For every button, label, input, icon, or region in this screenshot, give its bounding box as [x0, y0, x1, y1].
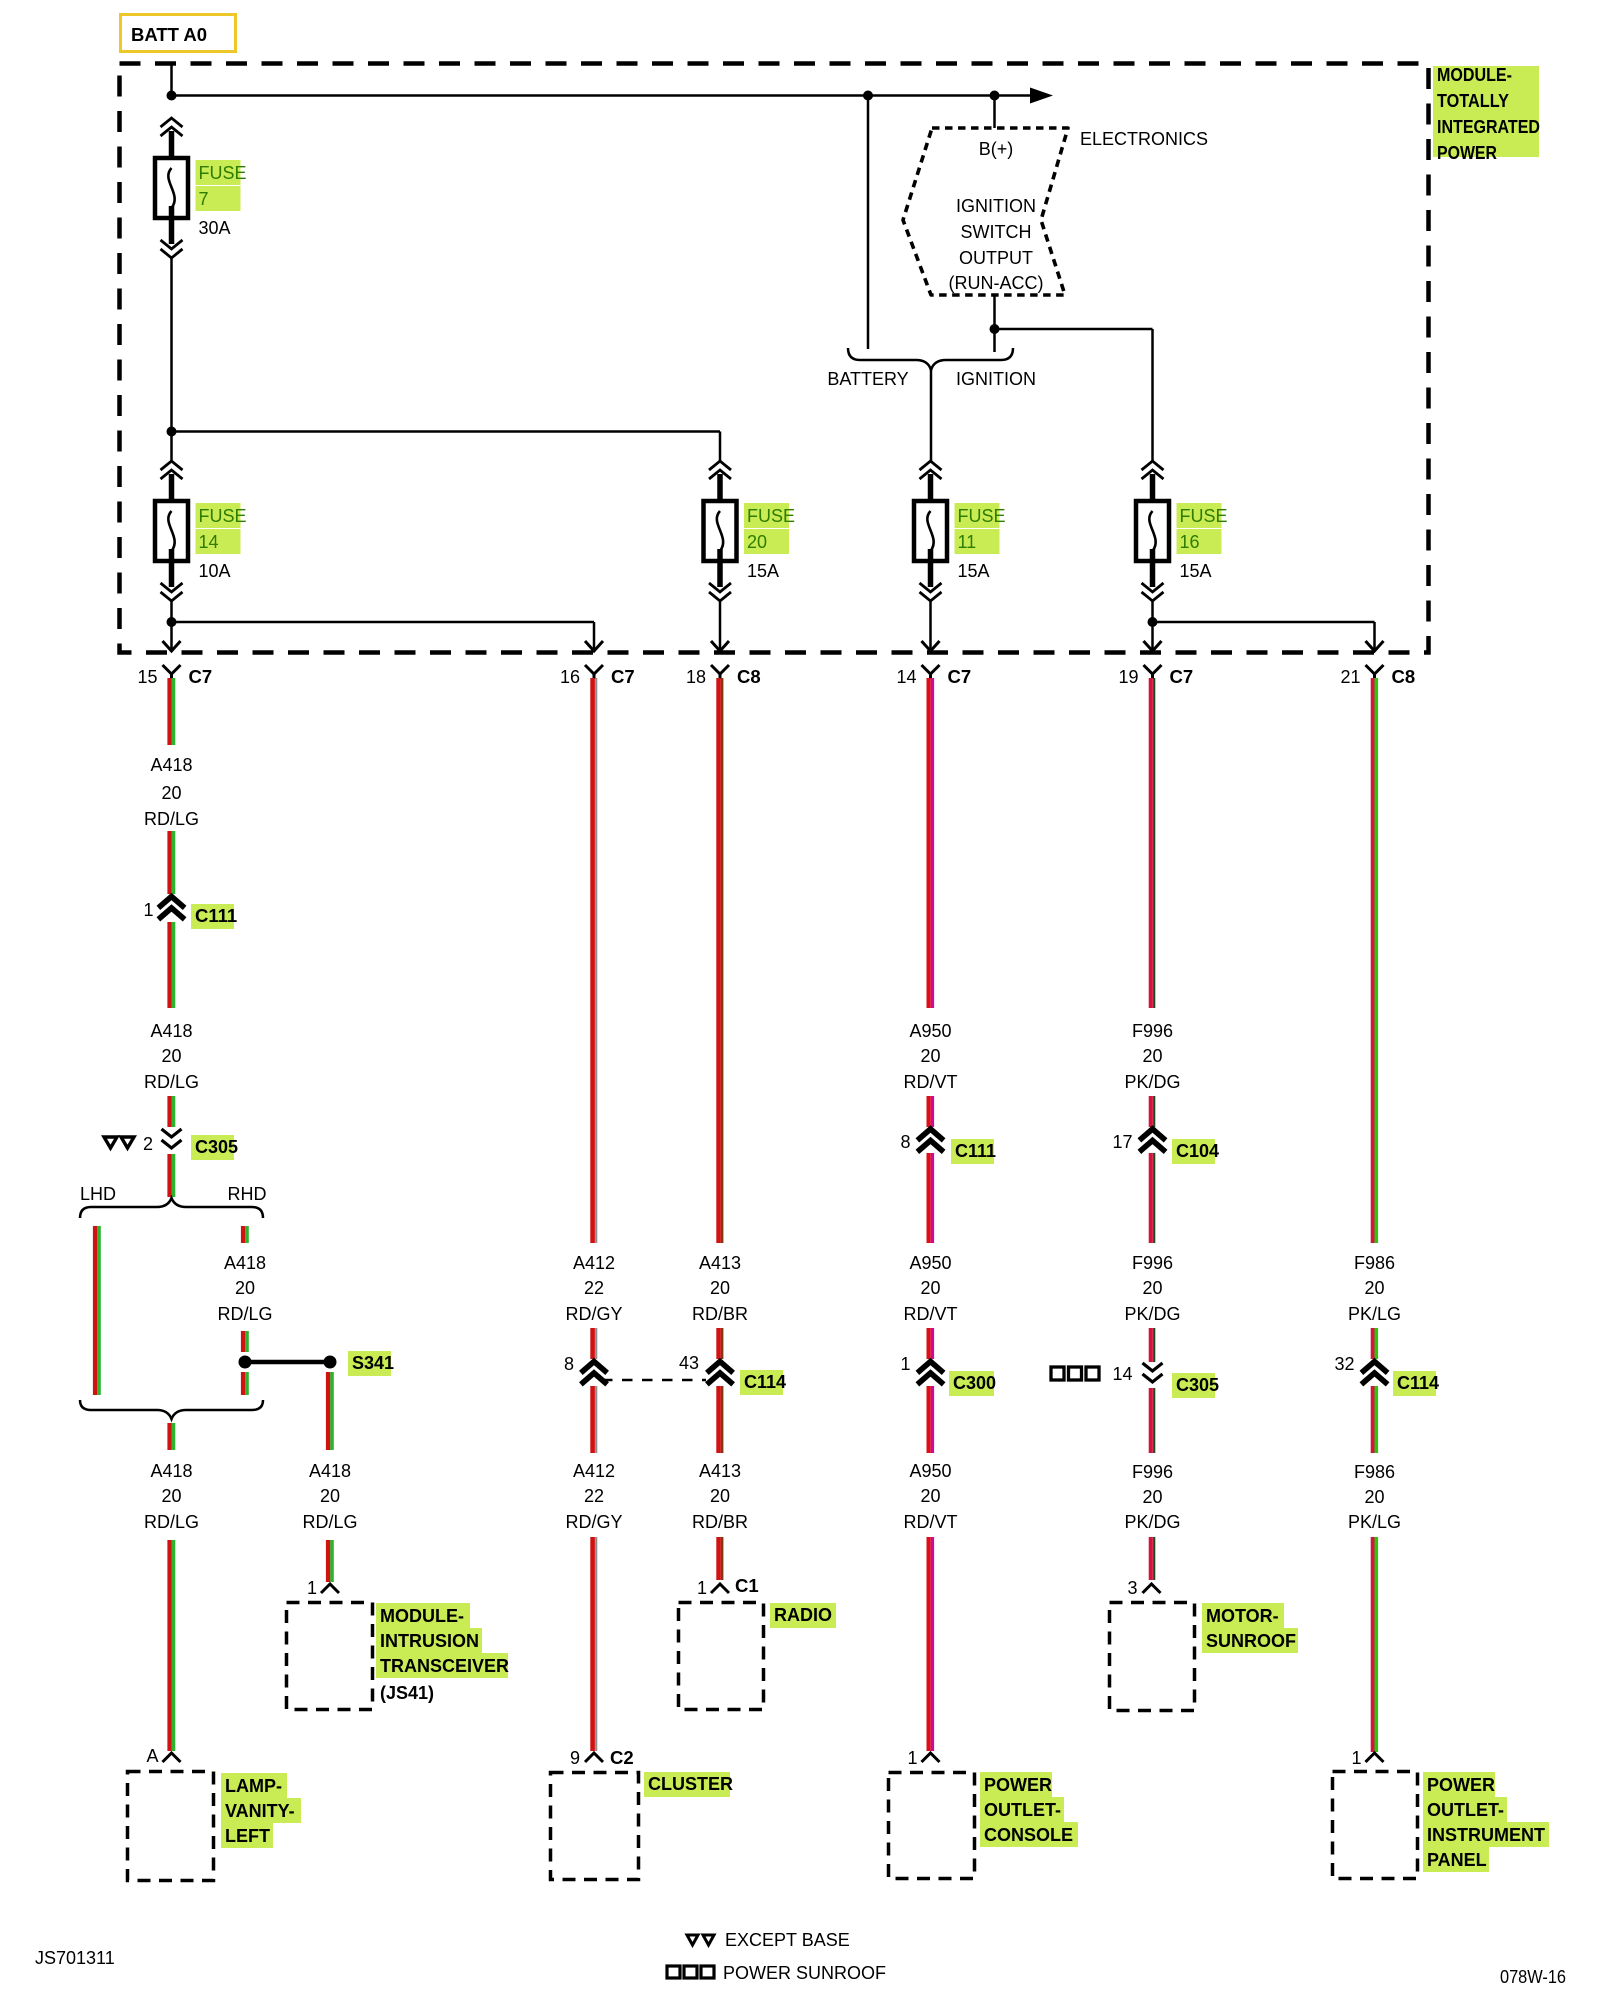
svg-text:19: 19 [1118, 667, 1138, 687]
connector C7 pin 14 [922, 665, 940, 679]
label connector C114 [740, 1370, 786, 1395]
wire A418 20 RD/LG [170, 1540, 174, 1751]
label MODULE-TOTALLY INTEGRATED POWER [1433, 65, 1540, 163]
wire A418 20 RD/LG [170, 1423, 174, 1450]
svg-text:A412: A412 [573, 1461, 615, 1481]
svg-text:1: 1 [907, 1748, 917, 1768]
svg-text:C7: C7 [1170, 666, 1194, 687]
wire A418 20 RD/LG [170, 1154, 174, 1197]
wire A418 RHD branch [243, 1372, 247, 1395]
svg-text:20: 20 [1364, 1487, 1384, 1507]
svg-text:PK/LG: PK/LG [1348, 1304, 1401, 1324]
svg-text:PK/DG: PK/DG [1124, 1304, 1180, 1324]
legend power-sunroof squares [667, 1966, 714, 1978]
wire F996 20 PK/DG [1151, 1096, 1154, 1127]
value label F986 20 PK/LG [1348, 1462, 1401, 1532]
connector C7 pin 19 [1144, 665, 1162, 679]
svg-text:JS701311: JS701311 [35, 1948, 115, 1968]
component CLUSTER dashed box [551, 1773, 639, 1880]
junction at fuse 7 feed [167, 91, 177, 101]
node LHD/RHD split brace [80, 1198, 263, 1218]
wire ignition to brace [993, 329, 996, 352]
svg-text:22: 22 [584, 1278, 604, 1298]
svg-text:BATT A0: BATT A0 [131, 24, 207, 45]
wire A418 20 RD/LG [170, 1096, 174, 1127]
wire A413 20 RD/BR [719, 1537, 723, 1580]
wire down to fuse 20 [719, 432, 722, 462]
wire A950 20 RD/VT [929, 1153, 933, 1243]
svg-text:RD/LG: RD/LG [302, 1512, 357, 1532]
node LHD/RHD merge brace [80, 1400, 263, 1419]
svg-text:C300: C300 [953, 1373, 996, 1393]
label MOTOR-SUNROOF [1202, 1603, 1298, 1653]
wire A950 20 RD/VT [929, 678, 933, 1008]
svg-text:A413: A413 [699, 1253, 741, 1273]
svg-text:20: 20 [920, 1486, 940, 1506]
connector C8 pin 18 [711, 665, 729, 679]
svg-text:20: 20 [161, 1486, 181, 1506]
svg-text:C305: C305 [1176, 1375, 1219, 1395]
svg-text:A412: A412 [573, 1253, 615, 1273]
wire B+ to ignition switch [993, 96, 996, 129]
svg-text:20: 20 [1142, 1046, 1162, 1066]
svg-text:EXCEPT BASE: EXCEPT BASE [725, 1930, 850, 1950]
svg-text:BATTERY: BATTERY [827, 369, 908, 389]
node BATTERY/IGNITION brace [848, 348, 1013, 370]
ignition switch output (RUN-ACC) dashed cloud [903, 128, 1068, 295]
svg-text:RD/VT: RD/VT [904, 1304, 958, 1324]
connector C7 pin 16 [585, 665, 603, 679]
connector C305 pin 2 (in-line) [162, 1129, 182, 1148]
svg-text:20: 20 [920, 1046, 940, 1066]
wire A418 RHD branch [243, 1226, 247, 1243]
svg-text:C7: C7 [611, 666, 635, 687]
svg-text:PK/LG: PK/LG [1348, 1512, 1401, 1532]
svg-text:MOTOR-: MOTOR- [1206, 1606, 1279, 1626]
svg-text:F996: F996 [1132, 1462, 1173, 1482]
connector C305 pin 14 (in-line) [1143, 1363, 1163, 1382]
svg-text:1: 1 [697, 1578, 707, 1598]
wire A412 22 RD/GY [593, 1328, 597, 1359]
svg-text:14: 14 [1112, 1364, 1132, 1384]
svg-text:RD/LG: RD/LG [217, 1304, 272, 1324]
svg-text:20: 20 [920, 1278, 940, 1298]
connector pin 1 of intrusion transceiver [321, 1584, 339, 1593]
svg-text:F996: F996 [1132, 1021, 1173, 1041]
svg-text:C8: C8 [1392, 666, 1416, 687]
wire down to border pin 19 [1151, 622, 1154, 650]
svg-text:1: 1 [900, 1354, 910, 1374]
svg-text:(RUN-ACC): (RUN-ACC) [949, 273, 1044, 293]
connector pin 1 of instrument panel power outlet [1366, 1753, 1384, 1762]
label CLUSTER [644, 1772, 733, 1797]
svg-text:INSTRUMENT: INSTRUMENT [1427, 1825, 1545, 1845]
fuse F20 15A [704, 461, 796, 601]
wire A418 to intrusion transceiver [328, 1540, 332, 1582]
svg-text:20: 20 [320, 1486, 340, 1506]
svg-text:32: 32 [1334, 1354, 1354, 1374]
wire fuse 20 output to border pin 18 [719, 601, 722, 650]
svg-text:OUTPUT: OUTPUT [959, 248, 1033, 268]
svg-text:RD/LG: RD/LG [144, 1072, 199, 1092]
fuse F11 15A [914, 461, 1006, 601]
svg-text:20: 20 [1364, 1278, 1384, 1298]
svg-text:FUSE: FUSE [199, 506, 247, 526]
label LAMP-VANITY-LEFT [221, 1773, 301, 1848]
wire F986 20 PK/LG [1373, 1537, 1377, 1752]
svg-text:(JS41): (JS41) [380, 1683, 434, 1703]
wire F986 20 PK/LG [1373, 1328, 1377, 1359]
label connector C114 [1393, 1371, 1439, 1396]
svg-text:OUTLET-: OUTLET- [984, 1800, 1061, 1820]
svg-text:SUNROOF: SUNROOF [1206, 1631, 1296, 1651]
svg-text:21: 21 [1340, 667, 1360, 687]
svg-text:FUSE: FUSE [747, 506, 795, 526]
value label A418 20 RD/LG [144, 755, 199, 829]
svg-text:A418: A418 [150, 1021, 192, 1041]
svg-text:RD/VT: RD/VT [904, 1512, 958, 1532]
svg-text:20: 20 [710, 1278, 730, 1298]
wire F996 20 PK/DG [1151, 1153, 1154, 1243]
svg-text:17: 17 [1112, 1132, 1132, 1152]
wire F996 20 PK/DG [1151, 1328, 1154, 1362]
component MODULE-INTRUSION TRANSCEIVER dashed box [287, 1603, 373, 1710]
svg-text:20: 20 [1142, 1487, 1162, 1507]
svg-text:ELECTRONICS: ELECTRONICS [1080, 129, 1208, 149]
svg-text:A413: A413 [699, 1461, 741, 1481]
svg-text:B(+): B(+) [979, 139, 1014, 159]
wire A413 20 RD/BR [719, 1386, 723, 1453]
svg-text:OUTLET-: OUTLET- [1427, 1800, 1504, 1820]
value label A412 22 RD/GY [565, 1253, 622, 1324]
value label A413 20 RD/BR [692, 1461, 748, 1532]
arrow at border pin 18 [711, 641, 729, 651]
svg-text:POWER SUNROOF: POWER SUNROOF [723, 1963, 886, 1983]
svg-text:7: 7 [199, 189, 209, 209]
svg-text:RD/BR: RD/BR [692, 1304, 748, 1324]
svg-text:15A: 15A [958, 561, 990, 581]
svg-text:C114: C114 [1397, 1373, 1439, 1393]
wire from BATT A0 into TIPM [170, 64, 173, 96]
wire A950 20 RD/VT [929, 1328, 933, 1359]
svg-text:16: 16 [560, 667, 580, 687]
label connector C300 [949, 1371, 996, 1396]
connector pin 3 of sunroof motor [1143, 1584, 1161, 1593]
svg-text:10A: 10A [199, 561, 231, 581]
svg-text:PANEL: PANEL [1427, 1850, 1487, 1870]
svg-text:C111: C111 [195, 905, 237, 926]
svg-text:22: 22 [584, 1486, 604, 1506]
svg-text:C1: C1 [735, 1575, 759, 1596]
svg-text:A418: A418 [224, 1253, 266, 1273]
wire down to border pin 21 [1373, 622, 1376, 650]
connector C114 pin 43 (in-line) [709, 1362, 731, 1383]
wire F996 20 PK/DG [1151, 678, 1154, 1008]
svg-text:RD/BR: RD/BR [692, 1512, 748, 1532]
svg-text:14: 14 [896, 667, 916, 687]
svg-text:16: 16 [1180, 532, 1200, 552]
wire A412 22 RD/GY [593, 1537, 597, 1751]
svg-text:FUSE: FUSE [199, 163, 247, 183]
wire A418 RHD branch [243, 1331, 247, 1352]
wire B+ bus [172, 94, 1047, 97]
wire battery sense down [867, 96, 870, 350]
svg-text:1: 1 [1351, 1748, 1361, 1768]
svg-text:8: 8 [564, 1354, 574, 1374]
svg-text:14: 14 [199, 532, 219, 552]
wire A418 20 RD/LG [170, 831, 174, 894]
connector C111 pin 1 (in-line) [161, 897, 183, 918]
wire fuse 14 output [170, 601, 173, 622]
legend except-base triangles [687, 1935, 714, 1945]
svg-text:RD/GY: RD/GY [565, 1304, 622, 1324]
svg-text:20: 20 [747, 532, 767, 552]
svg-text:1: 1 [143, 900, 153, 920]
wire F996 20 PK/DG [1151, 1537, 1154, 1580]
component RADIO dashed box [679, 1603, 764, 1710]
wire A418 20 RD/LG [170, 922, 174, 1008]
value label A418 20 RD/LG [144, 1021, 199, 1092]
label MODULE-INTRUSION TRANSCEIVER (JS41) [376, 1603, 509, 1703]
wire ignition feed to fuse 16 [995, 328, 1153, 331]
value label F996 20 PK/DG [1124, 1253, 1180, 1324]
svg-text:8: 8 [900, 1132, 910, 1152]
junction fuse 14 output split [167, 617, 177, 627]
svg-text:C111: C111 [955, 1141, 996, 1161]
wire down to fuse 14 [170, 432, 173, 462]
connector pin 1 of console power outlet [922, 1753, 940, 1762]
svg-text:18: 18 [686, 667, 706, 687]
arrow at border pin 14 [922, 641, 940, 651]
connector C111 pin 8 (in-line) [920, 1129, 942, 1150]
wire A413 20 RD/BR [719, 1328, 723, 1359]
svg-text:PK/DG: PK/DG [1124, 1512, 1180, 1532]
svg-text:LHD: LHD [80, 1184, 116, 1204]
value label A418 20 RD/LG (RHD) [217, 1253, 272, 1324]
svg-text:C2: C2 [610, 1747, 634, 1768]
svg-text:20: 20 [161, 783, 181, 803]
junction fuse14/fuse20 feed [167, 427, 177, 437]
wire feed to pin 21 [1153, 621, 1375, 624]
svg-text:IGNITION: IGNITION [956, 196, 1036, 216]
component LAMP-VANITY-LEFT dashed box [128, 1772, 214, 1881]
svg-text:F996: F996 [1132, 1253, 1173, 1273]
component POWER OUTLET-CONSOLE dashed box [889, 1773, 975, 1879]
component MOTOR-SUNROOF dashed box [1110, 1603, 1195, 1711]
value label A418 20 RD/LG [144, 1461, 199, 1532]
value label A412 22 RD/GY [565, 1461, 622, 1532]
wire ignition switch output down [993, 295, 996, 329]
svg-text:C7: C7 [189, 666, 213, 687]
svg-text:POWER: POWER [984, 1775, 1052, 1795]
wire A418 20 RD/LG [170, 678, 174, 745]
svg-text:RD/LG: RD/LG [144, 1512, 199, 1532]
svg-text:C8: C8 [737, 666, 761, 687]
svg-text:LAMP-: LAMP- [225, 1776, 282, 1796]
junction ignition-switch feed tap [990, 91, 1000, 101]
svg-text:IGNITION: IGNITION [956, 369, 1036, 389]
value label A950 20 RD/VT [904, 1021, 958, 1092]
wire A950 20 RD/VT [929, 1386, 933, 1453]
fuse F16 15A [1136, 461, 1228, 601]
svg-text:FUSE: FUSE [958, 506, 1006, 526]
junction ignition output split [990, 324, 1000, 334]
svg-text:LEFT: LEFT [225, 1826, 270, 1846]
svg-text:INTRUSION: INTRUSION [380, 1631, 479, 1651]
svg-text:INTEGRATED: INTEGRATED [1437, 117, 1540, 137]
value label A418 20 RD/LG [302, 1461, 357, 1532]
connector C8 pin 21 [1366, 665, 1384, 679]
svg-text:SWITCH: SWITCH [961, 222, 1032, 242]
label POWER OUTLET-CONSOLE [980, 1772, 1078, 1847]
svg-text:A418: A418 [309, 1461, 351, 1481]
wire feed to fuse 20 [172, 430, 721, 433]
wire F986 20 PK/LG [1373, 1386, 1377, 1453]
svg-text:RHD: RHD [228, 1184, 267, 1204]
svg-text:15A: 15A [1180, 561, 1212, 581]
wire feed to pin 16 [172, 621, 595, 624]
svg-text:A418: A418 [150, 1461, 192, 1481]
label POWER OUTLET-INSTRUMENT PANEL [1423, 1772, 1549, 1872]
svg-text:C104: C104 [1176, 1141, 1219, 1161]
svg-text:20: 20 [161, 1046, 181, 1066]
svg-text:30A: 30A [199, 218, 231, 238]
wire fuse 7 output down [170, 256, 173, 432]
component POWER OUTLET-INSTRUMENT PANEL dashed box [1333, 1772, 1418, 1879]
wire down to border pin 15 [170, 622, 173, 650]
svg-text:RD/LG: RD/LG [144, 809, 199, 829]
arrow at border pin 19 [1144, 641, 1162, 651]
svg-text:TRANSCEIVER: TRANSCEIVER [380, 1656, 509, 1676]
wire A418 to intrusion transceiver [328, 1372, 332, 1450]
arrow at border pin 15 [163, 641, 181, 651]
label connector C111 [191, 904, 237, 929]
symbol except-base triangles [104, 1137, 134, 1148]
svg-text:F986: F986 [1354, 1462, 1395, 1482]
splice S341 [324, 1356, 337, 1369]
label connector C305 [1172, 1373, 1219, 1398]
svg-text:F986: F986 [1354, 1253, 1395, 1273]
wire dashed tie between C114 halves [602, 1379, 706, 1382]
svg-text:C7: C7 [948, 666, 972, 687]
wire A413 20 RD/BR [719, 678, 723, 1243]
wire F996 20 PK/DG [1151, 1388, 1154, 1453]
wire A950 20 RD/VT [929, 1096, 933, 1127]
value label F986 20 PK/LG [1348, 1253, 1401, 1324]
svg-text:1: 1 [307, 1578, 317, 1598]
svg-text:A418: A418 [150, 755, 192, 775]
wire down to fuse 16 [1151, 329, 1154, 461]
connector C104 pin 17 (in-line) [1142, 1129, 1164, 1150]
svg-text:43: 43 [679, 1353, 699, 1373]
wire F986 20 PK/LG [1373, 678, 1377, 1243]
svg-text:3: 3 [1127, 1578, 1137, 1598]
symbol power-sunroof squares [1051, 1367, 1099, 1380]
wire fuse 11 output to border pin 14 [929, 601, 932, 650]
connector C300 pin 1 (in-line) [920, 1362, 942, 1383]
connector C114 pin 8 (in-line) [583, 1362, 605, 1383]
junction at splice S341 [239, 1356, 252, 1369]
arrow at border pin 16 [585, 641, 603, 651]
svg-text:A950: A950 [909, 1253, 951, 1273]
svg-text:9: 9 [570, 1748, 580, 1768]
wire down to border pin 16 [593, 622, 596, 650]
svg-text:POWER: POWER [1437, 143, 1497, 163]
wire A412 22 RD/GY [593, 678, 597, 1243]
label connector C104 [1172, 1139, 1219, 1164]
value label A413 20 RD/BR [692, 1253, 748, 1324]
svg-text:C114: C114 [744, 1372, 786, 1392]
svg-text:20: 20 [1142, 1278, 1162, 1298]
fuse F7 30A [155, 118, 247, 258]
label RADIO [770, 1603, 836, 1628]
svg-text:MODULE-: MODULE- [380, 1606, 464, 1626]
value label A950 20 RD/VT [904, 1253, 958, 1324]
value label F996 20 PK/DG [1124, 1021, 1180, 1092]
arrow at border pin 21 [1366, 641, 1384, 651]
wire A418 LHD branch [95, 1226, 99, 1395]
arrow B+ bus continuation [1030, 88, 1053, 104]
svg-text:20: 20 [235, 1278, 255, 1298]
junction fuse 16 output split [1148, 617, 1158, 627]
svg-text:11: 11 [958, 532, 977, 552]
connector C114 pin 32 (in-line) [1364, 1362, 1386, 1383]
svg-text:2: 2 [143, 1134, 153, 1154]
value label A950 20 RD/VT [904, 1461, 958, 1532]
svg-text:15: 15 [137, 667, 157, 687]
module Totally Integrated Power (TIPM) dashed boundary [120, 64, 1429, 653]
svg-text:RD/VT: RD/VT [904, 1072, 958, 1092]
svg-text:A950: A950 [909, 1021, 951, 1041]
svg-text:S341: S341 [352, 1353, 394, 1373]
connector pin A of vanity lamp [163, 1753, 181, 1762]
svg-text:15A: 15A [747, 561, 779, 581]
junction battery-sense tap [863, 91, 873, 101]
svg-text:VANITY-: VANITY- [225, 1801, 295, 1821]
connector C7 pin 15 [163, 665, 181, 679]
svg-text:CONSOLE: CONSOLE [984, 1825, 1073, 1845]
svg-text:FUSE: FUSE [1180, 506, 1228, 526]
svg-text:RD/GY: RD/GY [565, 1512, 622, 1532]
svg-text:MODULE-: MODULE- [1437, 65, 1512, 85]
value label F996 20 PK/DG [1124, 1462, 1180, 1532]
node BATT A0 feed box [121, 15, 236, 52]
wire A412 22 RD/GY [593, 1386, 597, 1453]
connector pin 9 of cluster [585, 1753, 603, 1762]
fuse F14 10A [155, 461, 247, 601]
wire splice link [245, 1360, 330, 1365]
label connector C111 [951, 1139, 996, 1164]
wire fuse 16 output [1151, 601, 1154, 622]
label connector C305 [191, 1135, 238, 1160]
svg-text:TOTALLY: TOTALLY [1437, 91, 1509, 111]
label splice S341 [348, 1351, 394, 1376]
svg-text:PK/DG: PK/DG [1124, 1072, 1180, 1092]
svg-text:078W-16: 078W-16 [1500, 1967, 1566, 1987]
wire A950 20 RD/VT [929, 1537, 933, 1751]
wire brace to fuse 11 [930, 369, 933, 461]
connector pin 1 of radio [711, 1584, 729, 1593]
svg-text:POWER: POWER [1427, 1775, 1495, 1795]
svg-text:CLUSTER: CLUSTER [648, 1774, 733, 1794]
svg-text:A950: A950 [909, 1461, 951, 1481]
svg-text:20: 20 [710, 1486, 730, 1506]
svg-text:A: A [146, 1746, 158, 1766]
svg-text:RADIO: RADIO [774, 1605, 832, 1625]
svg-text:C305: C305 [195, 1137, 238, 1157]
